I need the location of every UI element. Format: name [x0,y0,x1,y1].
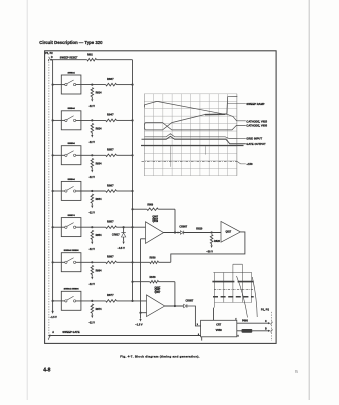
svg-text:GATE OUTPUT: GATE OUTPUT [246,142,266,146]
svg-text:Q827: Q827 [225,232,231,234]
resistor R837 [106,77,134,86]
svg-text:C: C [265,320,267,323]
trace: sweep ramp [144,97,237,114]
resistor R887 [106,255,134,264]
svg-text:−1.5 V: −1.5 V [135,323,143,326]
svg-text:Q819: Q819 [152,221,158,223]
switch SW864 [52,178,106,201]
node SWEEP GATE [48,330,201,340]
svg-text:R864: R864 [96,269,103,272]
svg-text:R837: R837 [107,77,114,81]
svg-text:SW874: SW874 [68,214,76,217]
CRT block V859 [198,318,240,338]
switch SW874 [52,214,106,237]
svg-text:R826: R826 [214,240,221,243]
U3 output wire [165,305,184,307]
svg-text:R857: R857 [107,220,114,224]
resistor R844 (pull-down) [89,194,103,215]
svg-text:R834: R834 [96,162,103,165]
page left edge [26,0,28,400]
svg-text:Fig. 4-7. Block diagram (timin: Fig. 4-7. Block diagram (timing and gene… [120,354,199,358]
svg-text:P1, P2: P1, P2 [261,308,270,312]
-1.5V supply arrow (left bus) [51,311,53,314]
switch SW884 SW886 [52,249,106,272]
diode CR817 (clamp to -3.5V) [112,227,126,250]
wire row7 to op-amp U3 [117,300,147,302]
op-amp U2 (Q827) [221,221,240,242]
switch SW854 [52,142,106,165]
feedback resistor R809 [131,204,175,233]
svg-text:CR807: CR807 [179,225,187,228]
resistor R824 (pull-down) [89,123,103,144]
svg-text:−12 V: −12 V [89,212,96,215]
wire B output [237,328,272,333]
op-amp U1 (Q807 Q817 Q819) [146,217,164,244]
resistor R857 [106,220,134,229]
svg-text:P1, P2: P1, P2 [45,52,53,55]
svg-text:CATHODE, V835: CATHODE, V835 [246,124,267,128]
svg-text:R857: R857 [107,148,114,152]
cable dashed line (left) [48,57,50,339]
trace: cathode V835 [145,114,246,130]
resistor R802 [87,58,97,61]
left bus [52,60,54,311]
waveform graticule grid [144,94,237,176]
svg-text:SWEEP RESET: SWEEP RESET [60,57,78,60]
svg-text:SWEEP GATE: SWEEP GATE [62,330,79,334]
bus (center vertical) [132,60,134,301]
waveform labels [246,102,267,166]
svg-text:SW884 SW886: SW884 SW886 [64,249,80,252]
svg-text:SW844: SW844 [68,107,76,110]
svg-text:Q857: Q857 [155,292,161,294]
svg-text:R877: R877 [107,293,114,297]
wire CR807 to U2, label R820 [184,232,221,234]
svg-text:SW834: SW834 [68,71,76,74]
svg-text:−3.5 V: −3.5 V [118,247,126,250]
svg-text:R814: R814 [96,92,103,95]
svg-text:R844: R844 [96,198,103,201]
svg-text:+150: +150 [246,162,253,166]
diode CR807 [179,225,187,234]
svg-text:−50 V: −50 V [206,250,213,253]
svg-text:B: B [265,328,267,331]
svg-text:SWEEP RAMP: SWEEP RAMP [246,102,264,106]
svg-text:−12 V: −12 V [89,176,96,179]
svg-text:R839: R839 [150,257,157,260]
switch SW844 [52,107,106,130]
trace: +150 level (dash-dot) [142,160,238,162]
arrow D (sweep reset input) [51,59,54,61]
svg-text:CATHODE, V825: CATHODE, V825 [246,119,267,123]
resistor R857 [106,148,134,157]
CRT deflection plates [212,264,253,307]
resistor R834 (pull-down) [89,158,103,179]
trace: grid input [145,134,246,139]
resistor R814 (pull-down) [89,88,103,109]
U2 output return loop [171,232,245,262]
svg-text:R867: R867 [107,183,114,187]
svg-text:P860: P860 [242,320,248,323]
baseline (dark) [141,145,244,147]
svg-text:R854: R854 [96,234,103,237]
page right edge [308,0,310,400]
resistor R877 [106,293,134,302]
trace: cathode V825 [145,123,246,130]
svg-text:R874: R874 [96,308,103,311]
svg-text:CR817: CR817 [112,233,120,236]
svg-text:R847: R847 [107,113,114,117]
resistor R847 [106,113,134,122]
svg-text:CRT: CRT [216,324,221,327]
svg-text:SW864: SW864 [68,178,76,181]
svg-text:R887: R887 [107,255,114,259]
svg-text:−12 V: −12 V [89,283,96,286]
svg-text:−12 V: −12 V [89,248,96,251]
resistor R826 to -50V [206,235,220,254]
retrace markers [169,146,171,167]
svg-text:R824: R824 [96,127,103,130]
-1.5V bias rail (op-amps) [135,239,146,327]
svg-text:D: D [51,56,53,59]
switch SW894 SW896 [52,288,106,311]
cable squiggle top [48,57,50,61]
wire to CRT box pin 3 [187,306,201,326]
op-amp U1 output wire [164,232,181,234]
svg-text:R802: R802 [87,53,93,56]
svg-text:SW894 SW896: SW894 SW896 [64,288,80,291]
box bottom stub [201,337,203,341]
beam path curves [237,276,248,318]
svg-text:CR857: CR857 [186,299,194,302]
switch SW834 [52,71,106,94]
svg-text:−12 V: −12 V [89,322,96,325]
svg-text:R846: R846 [150,276,157,279]
schematic border frame [45,51,277,344]
svg-text:V859: V859 [216,328,223,332]
svg-text:A: A [52,331,54,334]
svg-text:Circuit Description — Type 320: Circuit Description — Type 320 [39,40,103,45]
trace: gate output [142,136,246,143]
resistor R864 (pull-down) [89,265,103,286]
delay line block (hatched) [242,329,253,333]
svg-text:−12 V: −12 V [89,105,96,108]
wire plates to box top [213,308,215,321]
svg-text:−1.5 V: −1.5 V [50,317,57,319]
resistor R867 [106,183,134,192]
cable dashed line (right) [271,312,273,341]
wire to bus [97,59,133,61]
svg-text:−12 V: −12 V [89,141,96,144]
resistor R874 (pull-down) [89,304,103,325]
wire C output [237,320,272,325]
svg-text:R820: R820 [196,228,203,231]
svg-text:GRID INPUT: GRID INPUT [246,137,262,141]
wire row5 to op-amp U1 [117,226,146,228]
feedback resistor R846 [131,276,175,306]
svg-text:R809: R809 [147,204,153,207]
op-amp U3 (Q837 Q847 Q857) [147,287,165,316]
svg-text:SW854: SW854 [68,142,76,145]
svg-text:4-8: 4-8 [43,367,50,373]
diode CR857 [184,299,194,308]
feedback resistor R839 (U2 to bus) [133,257,171,264]
resistor R854 (pull-down) [89,230,103,251]
wire sweep reset [50,59,87,61]
